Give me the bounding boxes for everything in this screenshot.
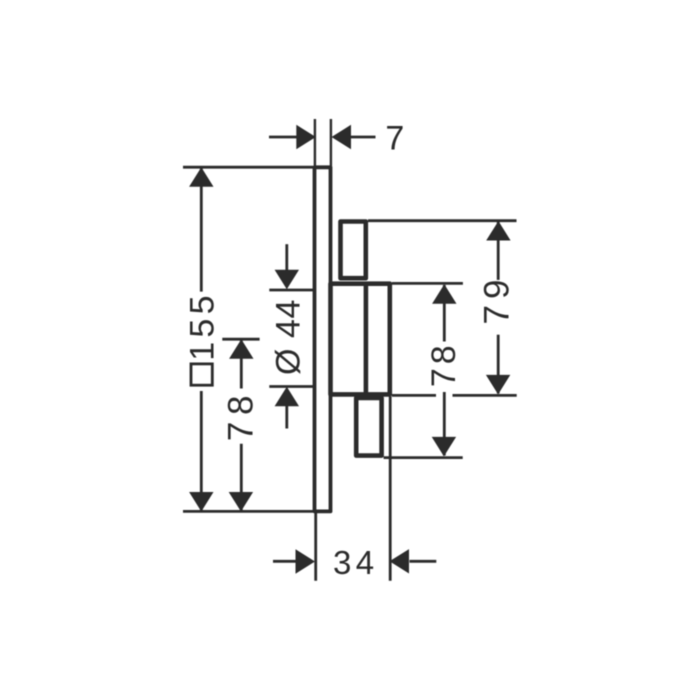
arrow 79 bottom (points down) <box>486 375 510 395</box>
dim line 7 left segment <box>269 136 297 139</box>
dim line 79 lower segment <box>497 335 500 394</box>
label square symbol <box>191 364 212 385</box>
dim line d44 lower segment <box>285 406 288 429</box>
svg-text:78: 78 <box>425 341 463 387</box>
extension line 34 right <box>389 397 392 581</box>
arrow 155 bottom (points down) <box>189 492 213 512</box>
arrow 7 left (points right) <box>296 125 316 149</box>
svg-text:34: 34 <box>333 544 379 581</box>
extension line lower knob bottom right <box>384 456 463 459</box>
arrow 34 right (points left) <box>390 549 410 573</box>
extension line knob top right <box>368 219 517 222</box>
extension line d44 bottom <box>269 385 313 388</box>
dim line 78 left upper segment <box>240 340 243 389</box>
upper knob <box>341 222 366 279</box>
dim line d44 upper segment <box>285 244 288 271</box>
arrow 78 right top (points up) <box>432 284 456 304</box>
svg-text:Ø 44: Ø 44 <box>270 299 308 375</box>
svg-text:7: 7 <box>385 120 404 158</box>
extension line body top right <box>392 282 463 285</box>
arrow d44 bottom (points up, outside) <box>275 387 299 407</box>
arrow 79 top (points up) <box>486 221 510 241</box>
extension line body bottom right (segment 1) <box>392 394 436 397</box>
arrow 34 left (points right) <box>296 549 316 573</box>
arrow 78 left bottom (points down) <box>229 492 253 512</box>
arrow d44 top (points down, outside) <box>275 270 299 290</box>
extension line 34 left <box>314 513 317 581</box>
svg-text:79: 79 <box>478 274 517 325</box>
extension line 7 right <box>330 119 332 166</box>
dim line 155 upper segment <box>200 168 203 292</box>
dim line 78 right upper segment <box>443 285 446 342</box>
dim line 34 left segment <box>273 560 296 563</box>
dim line 7 right segment <box>351 136 376 139</box>
knob edge line through body <box>364 284 369 395</box>
dim line 79 upper segment <box>497 222 500 280</box>
plate (escutcheon side view) <box>315 167 331 511</box>
dim line 34 right segment <box>410 560 437 563</box>
valve body <box>331 284 390 395</box>
svg-text:155: 155 <box>184 291 222 361</box>
svg-text:78: 78 <box>221 389 260 441</box>
lower knob <box>356 398 381 456</box>
extension line plate bottom <box>183 510 313 513</box>
extension line body bottom right (segment 2) <box>453 394 517 397</box>
arrow 78 right bottom (points down) <box>432 437 456 457</box>
extension line plate top <box>183 166 313 169</box>
arrow 155 top (points up) <box>189 167 213 187</box>
extension line center mark <box>222 338 259 341</box>
dim line 155 lower segment <box>200 391 203 511</box>
arrow 78 left top (points up) <box>229 339 253 359</box>
extension line 7 left <box>314 119 316 166</box>
extension line d44 top <box>269 289 313 292</box>
dim line 78 left lower segment <box>240 444 243 511</box>
dim line 78 right lower segment <box>443 392 446 456</box>
arrow 7 right (points left) <box>332 125 352 149</box>
